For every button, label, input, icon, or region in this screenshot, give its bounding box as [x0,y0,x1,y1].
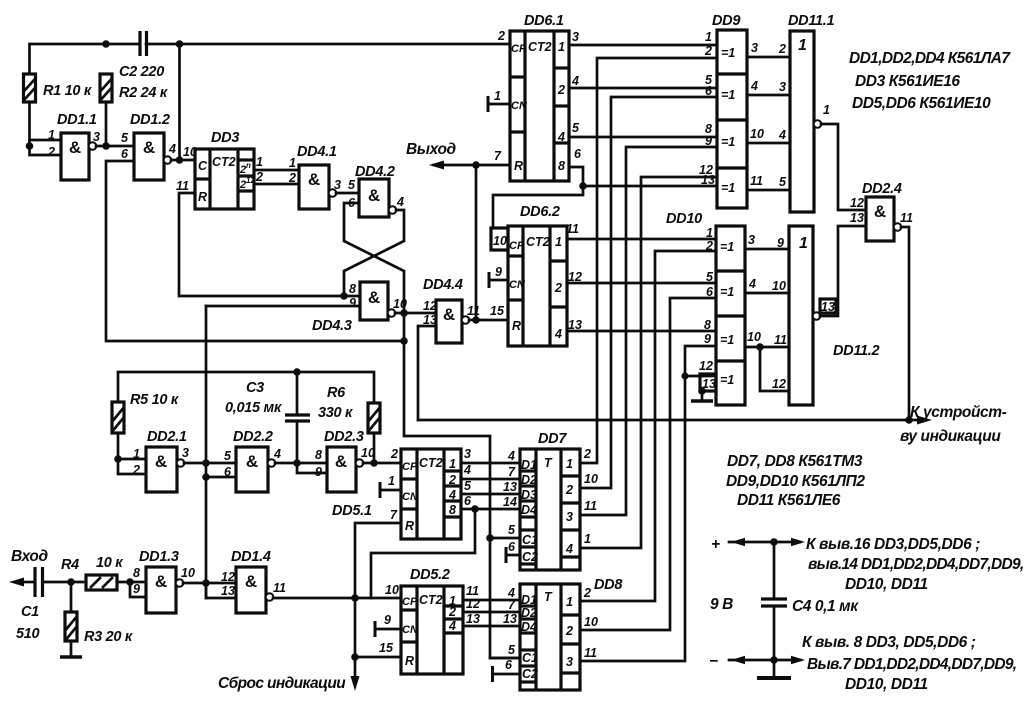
svg-text:C1: C1 [522,651,538,665]
svg-text:6: 6 [121,147,129,161]
svg-text:4: 4 [571,74,579,88]
svg-text:6: 6 [505,658,513,672]
svg-text:R: R [198,190,207,204]
svg-text:DD4.4: DD4.4 [423,277,463,293]
svg-text:DD10, DD11: DD10, DD11 [845,676,928,693]
node junction DD6.1 out8 branch [579,182,587,190]
ground stub DD5.1 CN pin 1 [380,474,401,498]
svg-text:2: 2 [565,483,573,497]
svg-text:9: 9 [133,582,140,596]
svg-text:=1: =1 [720,240,734,254]
svg-text:2: 2 [390,447,398,461]
wire bus V1: DD7 out1 pin2 to DD9 pin2 [580,58,717,463]
wire DD6.1 output 8 pin 6 to DD9 pin 13 and DD6.2 CP [493,167,717,228]
gate DD2.2 (NAND) pins 5,6 -> 4 [224,429,281,492]
svg-text:8: 8 [349,282,356,296]
svg-text:D2: D2 [521,473,537,487]
svg-text:DD6.2: DD6.2 [520,204,560,220]
svg-text:R2 24 к: R2 24 к [119,85,168,101]
svg-text:DD1,DD2,DD4 К561ЛА7: DD1,DD2,DD4 К561ЛА7 [849,50,1011,67]
svg-text:CP: CP [509,240,525,252]
svg-text:&: & [874,202,886,221]
counter DD5.1 CT2 (K561IE10) [332,449,461,539]
svg-text:5: 5 [508,523,516,537]
svg-text:8: 8 [558,159,565,173]
resistor R4 10k (horizontal) [61,555,123,590]
svg-text:1: 1 [558,40,565,54]
svg-text:C1: C1 [522,533,538,547]
svg-text:3: 3 [566,655,573,669]
svg-text:11: 11 [467,304,480,318]
svg-text:3: 3 [464,447,471,461]
wire DD11.1 output pin1 to DD2.4 pin 12 [821,124,866,210]
node junction input 6 tap [202,473,210,481]
svg-text:DD5.2: DD5.2 [410,567,450,583]
wire R2 bottom to DD1.1 output net [105,102,108,146]
svg-text:CN: CN [402,624,419,636]
wire cross-coupling DD4.2 output to DD4.3 input 8 (X left diagonal) [344,210,404,296]
ground stub DD6.2 CN pin 9 [489,265,508,288]
capacitor C4 0.1uF [761,542,859,660]
svg-text:2: 2 [47,145,55,159]
wire DD2.2 output to DD2.3 input 8 [275,462,327,465]
svg-text:4: 4 [448,619,456,633]
latch DD8 T (K561TM3) [503,577,623,690]
svg-text:CT2: CT2 [419,456,443,470]
svg-text:6: 6 [224,465,232,479]
resistor R5 10k [112,392,179,433]
wire DD2.1 output to DD2.2 input 5 [184,462,236,465]
svg-text:11: 11 [750,174,763,188]
node junction DD7 C1 strobe tap [486,534,520,542]
svg-text:DD8: DD8 [594,577,623,593]
wire C1 to R4 [43,581,84,584]
wire DD5.1 out8 pin6 to DD7 D4 pin14 and cascade to DD5.2 CP [371,494,520,598]
gate DD2.4 (NAND) pins 12,13 -> 11 [850,181,913,241]
svg-text:11: 11 [584,646,597,660]
wire DD9 out11 to DD11.1 pin5 [747,174,790,190]
svg-text:4: 4 [748,277,756,291]
wire R5 bottom to DD2.1 inputs 1,2 [118,433,146,474]
svg-text:&: & [443,305,455,324]
stub box DD10 pin 13 grounded [691,374,716,401]
svg-text:4: 4 [463,463,471,477]
svg-text:4: 4 [273,447,281,461]
svg-text:9: 9 [349,296,356,310]
svg-text:6: 6 [464,494,472,508]
svg-text:10: 10 [772,279,786,293]
svg-text:9: 9 [315,465,322,479]
svg-text:DD2.2: DD2.2 [233,429,273,445]
wire DD9 out4 to DD11.1 pin3 [747,79,790,95]
svg-text:DD4.3: DD4.3 [312,318,352,334]
svg-text:C2: C2 [522,550,538,564]
wire reset net vertical: DD5.1 R pin 7, DD5.2 R pin 15, sbros arrow [355,508,401,684]
svg-text:10: 10 [750,127,764,141]
wire DD4.1 output to DD4.2 input 5 [336,178,359,193]
svg-text:DD11 К561ЛЕ6: DD11 К561ЛЕ6 [737,492,841,509]
svg-text:+: + [711,536,720,553]
svg-text:R: R [405,654,414,668]
ground stub DD7 C2 pin 6 [506,547,520,563]
svg-text:2: 2 [448,605,456,619]
wire DD4.4 input 13 from indication line [418,326,436,420]
svg-text:1: 1 [449,457,456,471]
node junction C3 top on rail [293,368,301,376]
svg-text:3: 3 [566,510,573,524]
svg-text:330 к: 330 к [318,405,353,421]
wire DD6.1 CP pin2 from top rail [509,44,512,45]
node junction C4 bottom [770,656,778,664]
power minus terminal and arrow [709,653,805,670]
svg-text:Вход: Вход [11,548,48,565]
svg-text:R: R [512,319,521,333]
svg-text:3: 3 [751,41,758,55]
svg-text:DD5,DD6 К561ИЕ10: DD5,DD6 К561ИЕ10 [852,95,991,112]
node junction X to DD4.3 input 8 [340,292,348,300]
wire DD3 R pin 11 down to DD4.3 input 8 row [179,193,360,296]
svg-text:1: 1 [289,156,296,170]
svg-text:4: 4 [565,542,573,556]
node junction at R1 / DD1.1 inputs [26,142,34,150]
node junction oscillator vertical on output wire [202,459,210,467]
svg-text:1: 1 [256,155,263,169]
svg-text:4: 4 [557,130,565,144]
svg-text:5: 5 [348,178,356,192]
svg-text:1: 1 [798,37,807,54]
svg-text:1: 1 [584,532,591,546]
wire R1 bottom to DD1.1 inputs 1 and 2 [30,102,62,155]
svg-text:11: 11 [566,222,579,236]
wire top rail from R1 to DD6.1 CP with C2 gap [30,44,511,74]
svg-text:R3 20 к: R3 20 к [84,629,133,645]
svg-text:1: 1 [48,128,55,142]
wire DD5.2 out1 pin11 to DD8 D1 pin4 [463,584,520,600]
gate DD4.1 (NAND) pins 1,2 -> 3 [297,144,341,209]
svg-text:1: 1 [388,474,395,488]
svg-text:10: 10 [584,472,598,486]
wire DD1.1 output to DD1.2 input 5 [96,145,134,148]
svg-text:CT2: CT2 [526,235,550,249]
svg-text:1: 1 [823,103,830,117]
svg-text:3: 3 [93,130,100,144]
wire bus V2: DD7 out2 pin10 to DD9 pin6 [580,97,717,488]
gate DD4.4 (NAND) pins 12,13 -> 11 [423,277,480,343]
svg-text:12: 12 [221,570,235,584]
counter DD6.1 CT2 (K561IE10) [494,13,582,181]
svg-text:10: 10 [385,583,399,597]
svg-text:0,015 мк: 0,015 мк [225,400,282,416]
wire DD6.1 out1 pin3 to DD9 pin1 [569,44,717,47]
svg-text:R: R [405,519,414,533]
svg-text:−: − [709,653,718,670]
wire DD3 output 2 to DD4.1 input 2 [254,170,299,185]
svg-text:Сброс индикации: Сброс индикации [218,675,346,692]
svg-text:Выв.7 DD1,DD2,DD4,DD7,DD9,: Выв.7 DD1,DD2,DD4,DD7,DD9, [807,656,1016,673]
stub box DD11.2 output pin 13 [820,299,836,314]
svg-text:DD5.1: DD5.1 [332,503,372,519]
svg-text:5: 5 [572,121,580,135]
svg-text:11: 11 [176,179,189,193]
node junction DD2.4 output on indication line [905,416,913,424]
svg-text:&: & [368,288,380,307]
wire DD3 output 1 to DD4.1 input 1 [254,155,299,170]
svg-text:CT2: CT2 [528,40,552,54]
svg-text:11: 11 [466,584,479,598]
svg-text:1: 1 [566,457,573,471]
or gate DD11.1 (K561LE6) [778,13,835,212]
svg-text:C2: C2 [522,667,538,681]
ground stub DD6.1 CN pin 1 [488,96,510,112]
wire DD4.3 output to DD4.4 input 12 and down to C-strobe rail [395,313,520,658]
counter DD3 CT2 (K561IE16) [176,130,255,209]
svg-text:12: 12 [772,377,786,391]
arrow Sbros indikatsii (display reset) [218,675,360,692]
wire DD6.1 out4 pin5 to DD9 pin8 [569,136,717,139]
svg-text:&: & [368,186,380,205]
gate DD1.3 (NAND) pins 8,9 -> 10 [133,549,195,613]
svg-text:2: 2 [448,473,456,487]
resistor R2 24k [100,74,168,102]
svg-text:DD7, DD8 К561ТМ3: DD7, DD8 К561ТМ3 [727,453,863,470]
wire DD10 out10 to DD11.2 pin11 and pin12 [745,330,789,391]
svg-text:C2 220: C2 220 [119,64,164,80]
power plus terminal and arrow [711,536,805,553]
wire bus V7: DD8 out3 pin11 to DD10 pin9 [580,346,716,661]
svg-text:1: 1 [494,89,501,103]
svg-text:D4: D4 [521,620,537,634]
node junction DD8 C1 strobe tap [490,657,520,660]
svg-text:8: 8 [449,503,456,517]
svg-text:CP: CP [511,43,527,55]
svg-text:&: & [155,572,167,591]
node junction R6 bottom [370,459,378,467]
svg-text:DD2.4: DD2.4 [862,181,902,197]
svg-text:3: 3 [572,30,579,44]
svg-text:DD2.3: DD2.3 [324,429,364,445]
svg-text:2: 2 [255,170,263,184]
svg-text:15: 15 [490,304,505,318]
svg-text:C3: C3 [246,380,264,396]
svg-text:CN: CN [511,100,528,112]
svg-text:5: 5 [779,175,787,189]
svg-text:DD1.3: DD1.3 [139,549,179,565]
svg-text:4: 4 [750,79,758,93]
svg-text:DD2.1: DD2.1 [147,429,187,445]
wire DD10 pin12 tap from bus V7 [685,375,716,378]
svg-text:&: & [143,138,155,157]
svg-text:10: 10 [747,330,761,344]
svg-text:5: 5 [508,643,516,657]
node junction DD10 pin12 tap [681,372,688,379]
wire DD5.1 out1 pin3 to DD7 D1 pin4 [461,447,520,463]
wire DD9 out3 to DD11.1 pin2 [747,41,790,57]
wire DD6.2 R pin 15 label [490,304,505,318]
wire DD5.1 out4 pin5 to DD7 D3 pin13 [461,479,520,494]
node junction DD5.1 out8 cascade [471,505,479,513]
svg-text:D4: D4 [521,503,537,517]
resistor R6 330k [318,385,380,433]
svg-text:CN: CN [509,279,526,291]
wire DD2.3 output to DD5.1 CP pin 2 [363,447,401,463]
svg-text:=1: =1 [721,46,735,60]
svg-text:C: C [198,159,208,173]
svg-text:2: 2 [583,447,591,461]
svg-text:=1: =1 [720,285,734,299]
svg-text:13: 13 [821,300,835,314]
svg-text:7: 7 [390,508,398,522]
svg-text:6: 6 [574,147,582,161]
ground under R3 [60,655,82,659]
svg-text:C1: C1 [21,604,39,620]
svg-text:12: 12 [850,196,864,210]
stub box DD6.2 CP pin 10 [491,228,508,250]
node junction Vykhod [472,161,480,169]
counter DD6.2 CT2 (K561IE10) [508,204,582,346]
svg-text:n: n [246,161,251,170]
node junction C3 bottom on DD2.2 output wire [293,459,301,467]
node junction C4 top [770,538,778,546]
svg-text:3: 3 [748,233,755,247]
svg-text:&: & [155,452,167,471]
svg-text:DD7: DD7 [538,431,567,447]
svg-text:10: 10 [181,566,195,580]
svg-text:6: 6 [508,540,516,554]
svg-text:14: 14 [503,495,517,509]
gate DD1.2 (NAND) pins 5,6 -> 4 [121,112,176,180]
svg-text:3: 3 [182,446,189,460]
svg-text:13: 13 [221,584,235,598]
svg-text:DD3: DD3 [211,130,239,146]
wire DD5.2 out2 pin12 to DD8 D2 pin7 [463,597,520,612]
or gate DD11.2 (K561LE6) [772,226,880,405]
svg-text:8: 8 [315,448,322,462]
svg-text:4: 4 [507,449,515,463]
svg-text:R4: R4 [61,557,79,573]
svg-text:DD1.4: DD1.4 [231,549,271,565]
wire DD2.4 output pin11 down to indication line [901,227,909,420]
node junction DD5.2 R tap [351,653,359,661]
svg-text:1: 1 [555,235,562,249]
svg-text:CN: CN [402,491,419,503]
svg-text:R6: R6 [327,385,346,401]
svg-text:510: 510 [16,626,40,642]
wire DD6.2 out2 pin12 to DD10 pin5 [567,282,716,285]
annotation chip types top right [849,50,1011,112]
svg-text:R5 10 к: R5 10 к [130,392,179,408]
svg-text:11: 11 [584,499,597,513]
svg-text:11: 11 [273,581,286,595]
svg-text:3: 3 [779,80,786,94]
svg-text:9: 9 [384,613,391,627]
svg-text:CT2: CT2 [419,593,443,607]
ground at minus rail [757,660,791,678]
arrow and label Vkhod (input) [9,548,48,587]
svg-text:=1: =1 [720,333,734,347]
svg-text:2: 2 [288,171,296,185]
resistor R1 10k [24,74,92,102]
svg-text:5: 5 [224,449,232,463]
node junction reset vertical on DD1.4 output [351,594,359,602]
svg-text:К устройст-: К устройст- [910,404,1007,421]
svg-text:10: 10 [183,145,197,159]
annotation minus supply pins [802,634,1016,693]
annotation plus supply pins [806,536,1024,593]
svg-text:DD4.1: DD4.1 [297,144,337,160]
svg-text:10 к: 10 к [96,555,123,571]
wire DD9 out10 to DD11.1 pin4 [747,127,790,143]
svg-text:CT2: CT2 [212,155,236,169]
svg-text:&: & [308,170,320,189]
wire R6 bottom to DD2.3 output net [373,433,376,463]
svg-text:DD11.1: DD11.1 [788,13,835,29]
wire DD1.2 output to DD3 C input, with rail tap [171,44,195,160]
wire bus V6: DD8 out2 pin10 to DD10 pin6 [580,298,716,630]
node junction DD4.3 output [400,309,408,317]
svg-text:DD10: DD10 [666,211,702,227]
gate DD4.3 (NAND) pins 8,9 -> 10 [312,282,407,334]
wire DD10 out3 to DD11.2 pin9 [745,233,789,249]
arrow K ustroystvu indikatsii [900,404,1007,445]
svg-text:К выв. 8 DD3, DD5,DD6 ;: К выв. 8 DD3, DD5,DD6 ; [802,634,976,651]
svg-text:DD10, DD11: DD10, DD11 [845,576,928,593]
node junction DD1.2 output [176,156,184,164]
wire DD5.1 out2 pin4 to DD7 D2 pin7 [461,463,520,479]
annotation chip types middle right [726,453,865,509]
wire oscillator net vertical (to DD4.3 pin 9 above, DD1.3 output below) [205,306,208,598]
svg-text:12: 12 [699,359,713,373]
capacitor C2 220 [119,31,164,80]
svg-text:1: 1 [133,447,140,461]
node junction DD1.4 inputs [202,579,210,587]
svg-text:=1: =1 [721,135,735,149]
svg-text:D1: D1 [521,458,537,472]
wire DD6.2 out1 pin11 to DD10 pin1 [567,238,716,241]
svg-text:9: 9 [495,265,502,279]
svg-text:R1 10 к: R1 10 к [43,83,92,99]
svg-text:DD9,DD10 К561ЛП2: DD9,DD10 К561ЛП2 [726,473,865,490]
svg-text:13: 13 [503,612,517,626]
svg-text:2: 2 [565,624,573,638]
svg-text:8: 8 [133,566,140,580]
svg-text:1: 1 [799,235,808,252]
svg-text:DD11.2: DD11.2 [833,343,880,359]
svg-text:&: & [69,138,81,157]
node junction R3 tap [67,578,75,586]
svg-text:1: 1 [705,30,712,44]
svg-text:выв.14 DD1,DD2,DD4,DD7,DD9,: выв.14 DD1,DD2,DD4,DD7,DD9, [808,556,1024,573]
node junction R2 top on top rail [102,40,110,48]
svg-text:5: 5 [464,479,472,493]
svg-text:2: 2 [554,281,562,295]
node junction C2 right to DD1.2 output [176,40,184,48]
wire DD1.2 input 6 feedback from DD4.3 output (long left rail) [106,161,404,341]
svg-text:ву индикации: ву индикации [900,428,1001,445]
svg-text:DD4.2: DD4.2 [355,164,395,180]
svg-text:D1: D1 [521,593,537,607]
svg-text:К выв.16 DD3,DD5,DD6 ;: К выв.16 DD3,DD5,DD6 ; [806,536,980,553]
wire DD4.3 input 9 from oscillator net vertical [206,305,360,308]
capacitor C1 510 [16,567,43,642]
wire cross-coupling DD4.2 input 6 to DD4.3 output (X right diagonal) [344,203,404,313]
wire DD6.2 out4 pin13 to DD10 pin8 [567,330,716,333]
gate DD4.2 (NAND) pins 5,6 -> 4 [348,164,404,217]
svg-text:4: 4 [448,488,456,502]
svg-text:DD6.1: DD6.1 [524,13,564,29]
latch DD7 T (K561TM3) [503,431,598,570]
svg-text:Выход: Выход [406,141,457,158]
svg-text:1: 1 [566,595,573,609]
